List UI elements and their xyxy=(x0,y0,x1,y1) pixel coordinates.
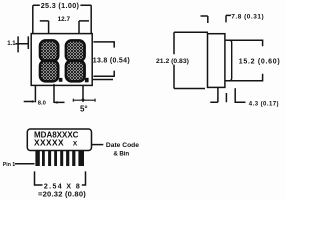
svg-text:13.8 (0.54): 13.8 (0.54) xyxy=(93,58,130,65)
body side view xyxy=(208,34,225,88)
svg-text:& Bin: & Bin xyxy=(113,151,129,158)
date code leader bracket xyxy=(92,144,104,146)
dimension 13.8 (0.54) xyxy=(92,42,114,80)
svg-text:15.2 (0.60): 15.2 (0.60) xyxy=(239,58,281,65)
dimension 12.7 xyxy=(40,21,89,34)
dimension 25.3 (1.00) xyxy=(33,5,91,33)
package outline front view xyxy=(31,34,92,86)
pin 4 xyxy=(54,150,57,166)
lead / 5 deg line xyxy=(82,85,84,102)
pin 2 xyxy=(42,150,45,166)
dimension 15.2 (0.60) xyxy=(226,40,263,80)
digit 1 top loop xyxy=(40,40,58,61)
dimension 4.3 (0.17) xyxy=(226,88,245,102)
lead extension line middle xyxy=(53,84,55,103)
pin 6 xyxy=(66,150,69,166)
package body bottom view xyxy=(27,129,91,151)
svg-text:25.3 (1.00): 25.3 (1.00) xyxy=(41,1,80,10)
svg-text:12.7: 12.7 xyxy=(58,16,71,23)
display face tab xyxy=(225,40,232,80)
dimension 7.8 (0.31) xyxy=(201,15,232,23)
pin 1 leader xyxy=(15,163,35,165)
lead extension line left xyxy=(34,85,36,102)
decimal point DP1 xyxy=(59,78,63,82)
digit 2 top loop xyxy=(66,40,85,61)
dimension 5 degrees xyxy=(73,99,95,102)
lead below body xyxy=(210,87,218,102)
pin 5 xyxy=(60,150,63,166)
svg-text:21.2 (0.83): 21.2 (0.83) xyxy=(156,58,189,65)
svg-text:7.8 (0.31): 7.8 (0.31) xyxy=(231,13,264,20)
svg-text:Pin 1: Pin 1 xyxy=(3,162,16,168)
pin 1 xyxy=(35,150,39,166)
svg-text:X: X xyxy=(73,140,78,147)
svg-text:5°: 5° xyxy=(80,105,88,114)
dimension 2.54 X 8 bracket xyxy=(35,171,86,185)
svg-text:Date Code: Date Code xyxy=(106,142,139,149)
svg-text:XXXXX: XXXXX xyxy=(34,138,64,148)
digit 2 bottom loop xyxy=(66,61,85,82)
pin 7 xyxy=(72,150,75,166)
svg-text:=20.32 (0.80): =20.32 (0.80) xyxy=(38,190,86,199)
svg-text:1.1: 1.1 xyxy=(7,41,16,47)
dimension 21.2 (0.83) xyxy=(174,32,208,88)
digit 1 bottom loop xyxy=(40,61,58,82)
svg-text:4.3 (0.17): 4.3 (0.17) xyxy=(249,102,279,108)
svg-text:8.0: 8.0 xyxy=(38,101,46,107)
pin 8 xyxy=(78,150,84,166)
dimension 8.0 xyxy=(24,101,65,104)
dimension 1.1 xyxy=(15,36,28,52)
pin 3 xyxy=(48,150,51,166)
decimal point DP2 xyxy=(85,78,89,83)
